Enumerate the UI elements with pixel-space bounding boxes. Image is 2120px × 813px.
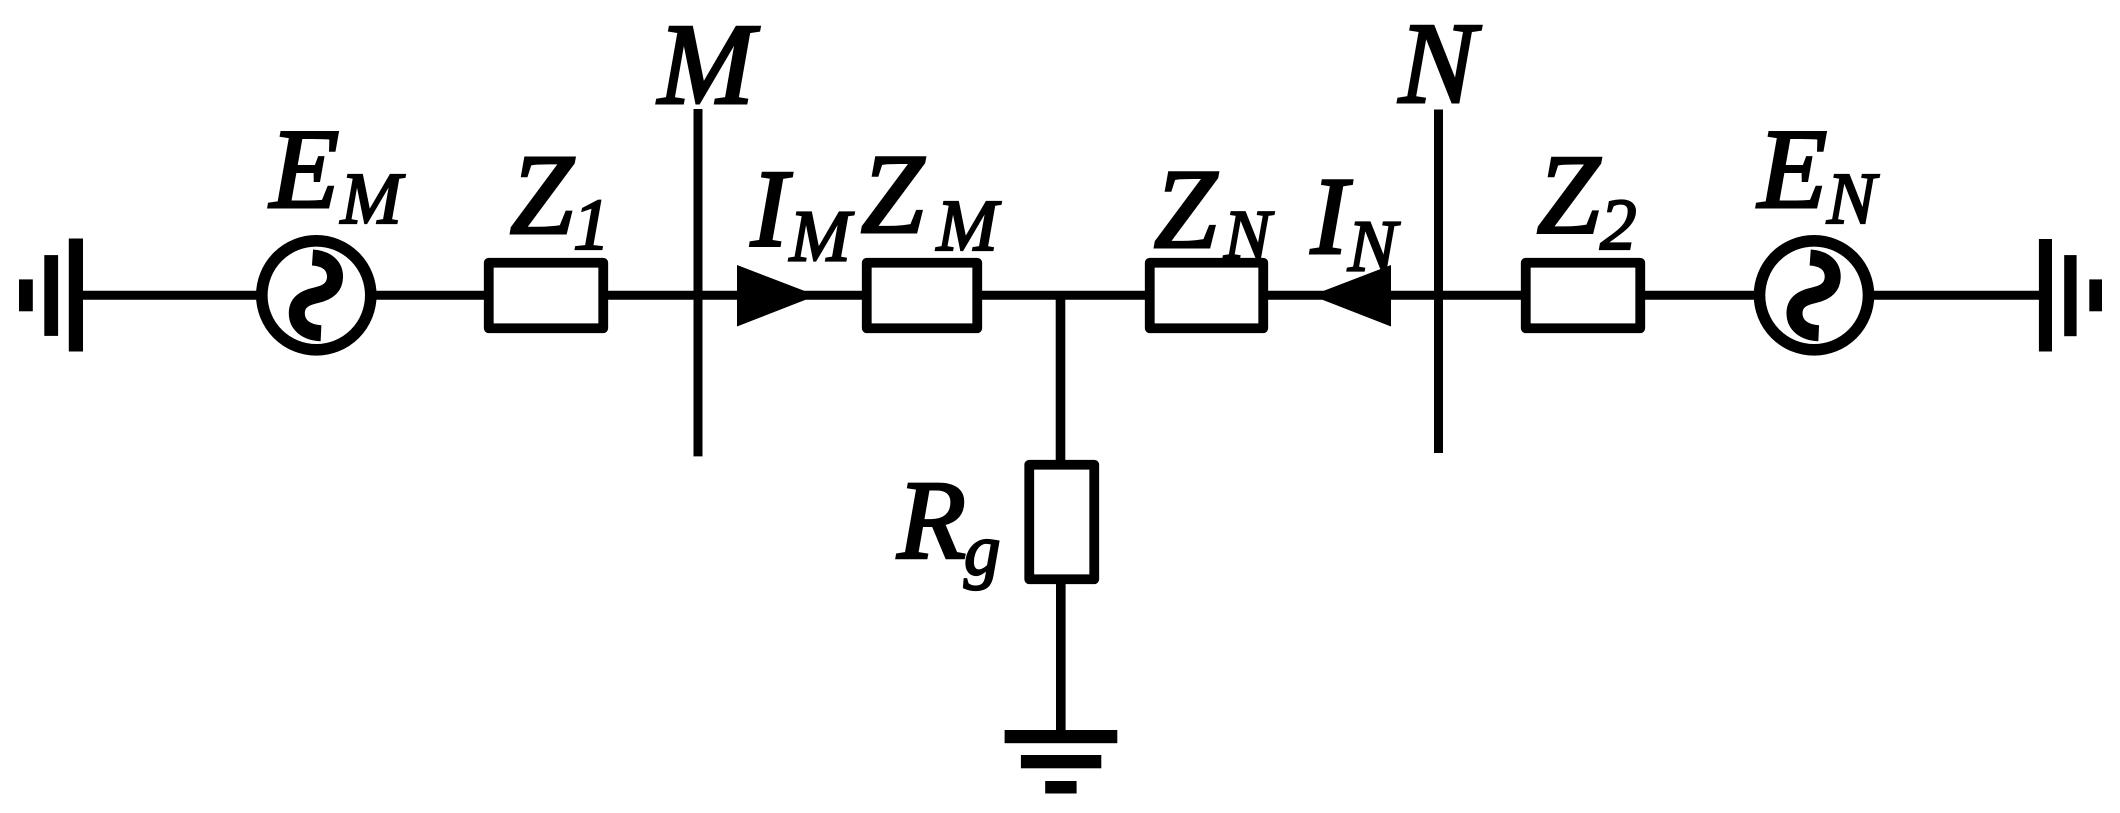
- label Z1: [510, 131, 610, 265]
- wire (EM to Z1): [372, 291, 488, 300]
- svg-text:R: R: [897, 459, 966, 583]
- svg-text:E: E: [1756, 107, 1827, 232]
- ground (left, source EM side): [19, 239, 83, 352]
- source U2 EN sine glyph: [1794, 258, 1832, 334]
- ground (bottom, fault): [1005, 730, 1118, 794]
- svg-text:M: M: [656, 1, 760, 128]
- svg-text:E: E: [268, 107, 339, 232]
- wire (ZN through bus N to Z2): [1264, 291, 1527, 300]
- svg-text:M: M: [789, 196, 855, 277]
- label IM: [750, 148, 855, 277]
- impedance ZN: [1150, 263, 1264, 329]
- wire (fault node down to Rg): [1056, 295, 1066, 465]
- wire (ZM through fault node to ZN): [978, 291, 1151, 300]
- svg-text:M: M: [936, 185, 1002, 266]
- label Z2: [1537, 133, 1637, 266]
- svg-text:N: N: [1223, 197, 1274, 274]
- label EM: [268, 107, 406, 239]
- source U1 EM sine glyph: [297, 258, 335, 334]
- current arrow IM: [737, 265, 817, 327]
- svg-text:N: N: [1398, 0, 1482, 127]
- bus M: [694, 109, 703, 456]
- impedance ZM: [867, 263, 978, 329]
- label IN: [1310, 155, 1401, 287]
- label EN: [1756, 107, 1880, 239]
- svg-text:M: M: [340, 158, 406, 239]
- bus N: [1434, 110, 1443, 454]
- resistor Rg: [1029, 465, 1094, 580]
- svg-text:Z: Z: [1154, 147, 1218, 272]
- svg-text:I: I: [1310, 155, 1352, 277]
- current arrow IN: [1312, 265, 1392, 327]
- impedance Z2: [1526, 263, 1641, 329]
- wire (left ground to EM): [83, 291, 260, 300]
- svg-text:Z: Z: [861, 132, 925, 257]
- impedance Z1: [489, 263, 604, 329]
- wire (Z1 through bus M to ZM): [606, 291, 866, 300]
- label Rg: [897, 459, 1001, 591]
- svg-text:g: g: [964, 510, 1001, 591]
- ground (right, source EN side): [2039, 239, 2102, 352]
- svg-text:N: N: [1347, 206, 1401, 287]
- source U2 EN circle: [1760, 241, 1869, 350]
- svg-text:N: N: [1826, 158, 1880, 239]
- svg-text:Z: Z: [510, 131, 575, 258]
- wire (Rg to bottom ground): [1056, 579, 1066, 731]
- svg-text:I: I: [750, 148, 792, 270]
- wire (EN to right ground): [1868, 291, 2040, 300]
- svg-text:Z: Z: [1537, 133, 1601, 258]
- wire (Z2 to EN): [1643, 291, 1760, 300]
- svg-text:1: 1: [573, 184, 610, 265]
- label ZN: [1154, 147, 1274, 274]
- svg-text:2: 2: [1600, 184, 1637, 265]
- label ZM: [861, 132, 1002, 266]
- source U1 EM circle: [262, 241, 371, 350]
